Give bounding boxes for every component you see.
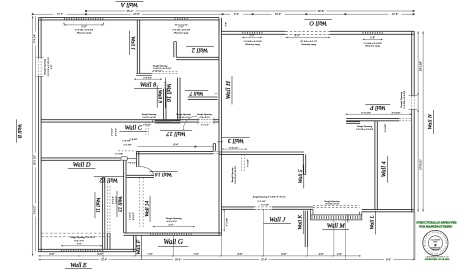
wall 17 horizontal xyxy=(136,151,213,153)
svg-text:2′-9 5/8″: 2′-9 5/8″ xyxy=(143,76,153,79)
svg-text:Wall H: Wall H xyxy=(225,80,232,99)
label Wall K (rotated) xyxy=(298,210,304,234)
svg-text:Wall O: Wall O xyxy=(309,20,327,27)
svg-text:Wall E: Wall E xyxy=(70,262,87,269)
svg-text:10′-1 1/2″: 10′-1 1/2″ xyxy=(34,154,37,165)
svg-text:Rough Opening: Rough Opening xyxy=(323,200,340,203)
wall 3 horizontal xyxy=(219,152,304,154)
wall 5 stub vertical xyxy=(303,154,305,174)
svg-text:2′-2″: 2′-2″ xyxy=(249,35,255,38)
top window P1 xyxy=(241,32,244,34)
wall 8 dim xyxy=(134,78,162,80)
svg-text:5′-5 1/2″: 5′-5 1/2″ xyxy=(113,196,115,204)
svg-text:Wall 13: Wall 13 xyxy=(117,196,123,212)
wall I vertical xyxy=(137,20,139,73)
closet stub near wall H xyxy=(213,144,215,152)
svg-text:Rough Opening: Rough Opening xyxy=(152,65,168,67)
label Wall I (rotated) xyxy=(129,31,135,55)
left dim column inner xyxy=(34,16,36,251)
wall K vertical xyxy=(305,211,307,247)
label Wall 5 (rotated) xyxy=(298,165,304,189)
svg-text:2′-6 7/8 x 6′-10 1/2: 2′-6 7/8 x 6′-10 1/2 xyxy=(235,165,237,183)
wall P rough opening dashes xyxy=(399,117,410,119)
second opening dimension xyxy=(175,24,188,26)
wall 3 dim xyxy=(222,148,247,150)
svg-text:2′-2 7/8″: 2′-2 7/8″ xyxy=(123,144,132,147)
svg-text:2′-8 1/2″: 2′-8 1/2″ xyxy=(112,128,114,136)
closet dashed header xyxy=(152,71,178,73)
label Wall 14 (rotated) xyxy=(143,196,150,222)
right dim column inner xyxy=(417,31,419,212)
svg-text:Wall C: Wall C xyxy=(125,125,143,132)
right wall opening xyxy=(411,96,415,109)
P1 dimension xyxy=(242,36,262,38)
label Wall 13 (rotated) xyxy=(117,191,123,217)
wall 17 dim xyxy=(137,146,213,148)
label Wall F (rotated) xyxy=(136,235,142,259)
right dim texts xyxy=(419,59,423,74)
svg-text:Masonry opng: Masonry opng xyxy=(76,31,92,34)
wall jog at top center xyxy=(218,20,220,31)
svg-text:WAY: WAY xyxy=(433,240,438,243)
svg-text:2′-6 1/2″: 2′-6 1/2″ xyxy=(34,205,37,215)
wall C dotted opening xyxy=(151,120,154,122)
label Wall 4 (rotated) xyxy=(381,156,388,183)
svg-text:Wall L: Wall L xyxy=(370,215,376,229)
wall F exterior jog xyxy=(134,235,136,251)
wall 3 door dashes xyxy=(240,154,242,171)
closet wall above wall 2 xyxy=(174,42,177,58)
svg-text:Rough Opening 5′-0 x 6′-8: Rough Opening 5′-0 x 6′-8 xyxy=(69,237,95,239)
closet wall 16 vertical xyxy=(178,78,180,121)
P2 dimension xyxy=(286,36,330,38)
label Wall B (rotated flipped) xyxy=(16,119,22,142)
left wall (Wall B) xyxy=(39,18,42,252)
svg-text:7′-4 7/8″: 7′-4 7/8″ xyxy=(246,159,249,167)
wall C right opening ticks xyxy=(199,119,214,123)
door opening dashes below wall 14 xyxy=(139,178,141,227)
svg-text:13′-0″: 13′-0″ xyxy=(101,258,108,261)
wall C door dashes xyxy=(145,122,147,135)
label Wall 2 (flipped) xyxy=(186,46,214,53)
svg-text:8′-4″: 8′-4″ xyxy=(173,144,179,147)
svg-text:5′-5 1/2″: 5′-5 1/2″ xyxy=(116,128,118,136)
svg-text:+5′-3″: +5′-3″ xyxy=(217,141,224,144)
svg-text:3′-0″: 3′-0″ xyxy=(50,63,53,69)
svg-text:22′-0″: 22′-0″ xyxy=(392,13,399,16)
wall C arc xyxy=(183,116,197,130)
svg-text:Wall 12: Wall 12 xyxy=(100,176,118,182)
svg-text:1′-4 1/2″: 1′-4 1/2″ xyxy=(129,212,132,220)
svg-text:FOR MANUFACTURING: FOR MANUFACTURING xyxy=(419,224,453,228)
top-left window opening xyxy=(63,18,66,20)
left dim texts xyxy=(33,32,37,46)
wall 16 lower vertical xyxy=(136,151,138,167)
bottom wall opening xyxy=(60,250,63,252)
svg-text:2′-0 1/2 x 6′-10: 2′-0 1/2 x 6′-10 xyxy=(142,117,156,119)
svg-text:7′-4 1/2″: 7′-4 1/2″ xyxy=(128,161,137,164)
top dim row B xyxy=(33,13,414,15)
dim extension lines bottom xyxy=(135,252,137,256)
svg-text:Wall M: Wall M xyxy=(327,222,346,229)
opening arrows top-left xyxy=(63,22,104,24)
svg-text:4′-0 1/2 x 5′-0: 4′-0 1/2 x 5′-0 xyxy=(177,116,190,119)
top-left exterior wall (Wall A) xyxy=(39,18,219,20)
svg-text:3′-0 5/8 x 4′-0 5/8: 3′-0 5/8 x 4′-0 5/8 xyxy=(403,90,406,109)
label Wall L (rotated) xyxy=(370,211,376,235)
svg-text:2′-0 3/8 x 6′-0 3/8: 2′-0 3/8 x 6′-0 3/8 xyxy=(356,128,374,131)
svg-text:TURNER: TURNER xyxy=(432,250,440,252)
right dim column outer xyxy=(422,31,424,212)
svg-text:Wall N: Wall N xyxy=(428,114,434,129)
svg-text:6′-0 5/8 x 6′-10: 6′-0 5/8 x 6′-10 xyxy=(325,204,339,206)
svg-text:2′-10 1/2″: 2′-10 1/2″ xyxy=(153,71,162,73)
wall 2 horizontal xyxy=(176,57,219,59)
svg-text:5′-3 3/8″: 5′-3 3/8″ xyxy=(225,217,228,226)
label Wall H (rotated) xyxy=(225,76,232,104)
svg-text:15′-8″: 15′-8″ xyxy=(133,13,140,16)
svg-text:Wall 9: Wall 9 xyxy=(157,90,163,104)
svg-text:Wall 14: Wall 14 xyxy=(143,200,150,216)
wall P horizontal xyxy=(346,118,399,120)
svg-text:4′-0 x 5′-0: 4′-0 x 5′-0 xyxy=(166,220,177,223)
wall 17 dashed extension xyxy=(213,150,219,152)
label Wall 11 (rotated) xyxy=(95,192,101,218)
svg-text:Wall I: Wall I xyxy=(129,36,135,50)
wall D door leaf xyxy=(121,157,127,160)
svg-text:Wall 7: Wall 7 xyxy=(189,90,203,96)
door swing arc xyxy=(139,167,153,176)
wall 12 vertical xyxy=(102,177,104,249)
bottom exterior wall (Wall E) xyxy=(39,249,136,251)
label Wall 17 (flipped) xyxy=(160,130,192,137)
closet wall 9 vertical xyxy=(164,89,166,121)
svg-text:Wall 17: Wall 17 xyxy=(165,130,185,137)
svg-text:Wall 3: Wall 3 xyxy=(228,137,244,144)
bottom-right exterior wall xyxy=(362,209,414,211)
label Wall G xyxy=(158,238,188,246)
svg-text:Wall P: Wall P xyxy=(370,104,386,110)
svg-text:30′-8″: 30′-8″ xyxy=(318,10,326,13)
wall D horizontal xyxy=(41,158,121,160)
wall 12 door dashes xyxy=(106,186,108,232)
wall H dim ticks xyxy=(215,93,218,95)
svg-text:2′-1 1/2″: 2′-1 1/2″ xyxy=(201,123,210,126)
wall 4 vertical xyxy=(375,121,377,210)
top door P2 dashes xyxy=(286,30,330,35)
left dim column outer xyxy=(32,16,34,256)
svg-text:Wall G: Wall G xyxy=(164,238,183,246)
label Wall 8 xyxy=(134,81,162,88)
svg-text:3′-10 1/2″: 3′-10 1/2″ xyxy=(229,146,240,149)
wall 12 top cap xyxy=(102,176,104,178)
second top-left window opening xyxy=(174,18,177,20)
wall G exterior xyxy=(124,233,222,235)
label Wall 9 (rotated) xyxy=(157,85,163,107)
svg-text:19′-0″: 19′-0″ xyxy=(175,258,182,261)
svg-text:2′-2 1/4″: 2′-2 1/4″ xyxy=(257,200,266,203)
wall J door opening dashes xyxy=(254,207,272,210)
svg-text:APPROVED: 02-18-2025: APPROVED: 02-18-2025 xyxy=(424,258,450,261)
svg-text:2′-2 3/8″: 2′-2 3/8″ xyxy=(115,152,124,155)
svg-text:7′-4 3/8″: 7′-4 3/8″ xyxy=(129,138,138,141)
svg-text:Wall 4: Wall 4 xyxy=(381,161,388,177)
label Wall C xyxy=(119,125,147,132)
wall 12 lower segment xyxy=(107,233,110,249)
svg-text:Wall 14: Wall 14 xyxy=(155,171,172,177)
top window P3 xyxy=(362,32,365,34)
wall H interior long vertical xyxy=(219,18,221,236)
wall C horizontal xyxy=(41,120,219,122)
wall G opening dim xyxy=(153,226,195,228)
svg-text:2′-0 1/2″: 2′-0 1/2″ xyxy=(143,123,152,126)
svg-text:17′-0 1/2″: 17′-0 1/2″ xyxy=(419,158,422,169)
svg-text:Wall 5: Wall 5 xyxy=(298,169,304,183)
label Wall N (rotated) xyxy=(428,110,434,134)
svg-text:2′-8 x 6′-10: 2′-8 x 6′-10 xyxy=(200,117,211,119)
svg-text:Masonry opng: Masonry opng xyxy=(173,31,189,34)
svg-text:Wall F: Wall F xyxy=(136,239,142,254)
top dim row A xyxy=(86,10,414,12)
svg-text:Wall 16: Wall 16 xyxy=(165,84,171,102)
label Wall 3 (flipped) xyxy=(222,137,250,144)
left wall opening ticks xyxy=(38,58,42,76)
svg-text:Masonry opng: Masonry opng xyxy=(364,45,380,48)
top-left opening dimension xyxy=(64,24,104,26)
label Wall M xyxy=(322,222,349,229)
approval stamp seal xyxy=(423,230,448,255)
svg-text:5′-0″: 5′-0″ xyxy=(77,242,83,245)
wall 14 horizontal xyxy=(127,175,154,177)
svg-text:7′-4 1/4″: 7′-4 1/4″ xyxy=(34,33,37,43)
wall 7 horizontal xyxy=(188,97,218,99)
svg-text:4′-0″: 4′-0″ xyxy=(169,223,175,226)
label Wall A (flipped) xyxy=(115,1,143,8)
svg-text:Wall J: Wall J xyxy=(269,217,286,224)
wall J exterior bottom wing xyxy=(221,207,313,209)
svg-text:Wall A: Wall A xyxy=(121,1,138,8)
svg-text:6′-11 5/8″: 6′-11 5/8″ xyxy=(361,111,372,114)
svg-text:Wall 2: Wall 2 xyxy=(191,46,208,53)
svg-text:1′-4 1/2″: 1′-4 1/2″ xyxy=(347,214,350,222)
right exterior wall (Wall N) xyxy=(412,31,415,212)
svg-text:2′-10 1/2 x 6′-10 1/2: 2′-10 1/2 x 6′-10 1/2 xyxy=(153,68,172,70)
wall H side dim xyxy=(223,209,225,231)
label Wall J xyxy=(263,217,291,224)
svg-text:Wall 11: Wall 11 xyxy=(95,197,101,213)
svg-text:Masonry opng: Masonry opng xyxy=(244,43,260,46)
sliding door rough opening dashes xyxy=(313,204,359,206)
svg-text:5′-9 3/4″: 5′-9 3/4″ xyxy=(384,123,387,132)
wall D header xyxy=(127,158,136,160)
label Wall E xyxy=(65,262,92,269)
svg-text:17′-1″: 17′-1″ xyxy=(57,13,64,16)
svg-text:6′-8 1/2″: 6′-8 1/2″ xyxy=(133,212,135,220)
label Wall 7 (flipped) xyxy=(185,90,208,96)
label Wall 14 (flipped) xyxy=(149,171,177,177)
label Wall 16 (rotated) xyxy=(165,78,171,108)
svg-text:1′-2 7/8″: 1′-2 7/8″ xyxy=(261,204,270,207)
svg-text:Rough Opening: Rough Opening xyxy=(43,58,46,76)
svg-text:Rough Opening 3′-2 5/8 x 6′-10: Rough Opening 3′-2 5/8 x 6′-10 1/2 xyxy=(252,197,286,199)
label Wall P (flipped) xyxy=(365,104,390,110)
closet bottom bar xyxy=(155,121,180,123)
svg-text:Wall 8: Wall 8 xyxy=(140,81,157,88)
doorway dashed header xyxy=(118,150,136,152)
svg-text:4′-4 5/8″: 4′-4 5/8″ xyxy=(392,111,402,114)
svg-text:PRECISION BUILT HOMES • MANUFA: PRECISION BUILT HOMES • MANUFACTURED • xyxy=(0,0,447,255)
svg-text:Wall K: Wall K xyxy=(298,215,304,230)
P3 dimension xyxy=(363,38,383,40)
svg-text:Rough Opening: Rough Opening xyxy=(232,167,234,183)
svg-text:10′-0″: 10′-0″ xyxy=(275,13,282,16)
svg-text:13′-0″: 13′-0″ xyxy=(261,258,268,261)
svg-text:2′-6″: 2′-6″ xyxy=(370,37,376,40)
closet wall 9 dashes xyxy=(163,82,165,89)
top-right exterior wall (Wall O) xyxy=(221,31,414,34)
label Wall O (flipped) xyxy=(304,20,332,27)
label Wall 12 (flipped) xyxy=(94,176,124,182)
wall P dim row xyxy=(346,113,412,115)
header dashed lines above bottom wall xyxy=(41,232,109,234)
bottom dim row 2 xyxy=(39,259,415,261)
svg-text:Wall D: Wall D xyxy=(73,162,91,169)
svg-text:6′-8 x 5′-0: 6′-8 x 5′-0 xyxy=(74,240,84,242)
wall jog right of Wall J xyxy=(310,209,312,215)
wall jog left of Wall L xyxy=(358,212,360,215)
wall P left step xyxy=(346,122,360,124)
bottom opening dim xyxy=(61,245,103,247)
bottom dim row 1 xyxy=(39,255,361,257)
vertical wall below wall D door xyxy=(124,160,126,233)
label Wall D xyxy=(68,162,96,169)
wall M hatched sill xyxy=(311,215,362,220)
svg-text:2′-6″: 2′-6″ xyxy=(225,21,228,27)
svg-text:Wall B: Wall B xyxy=(16,124,22,139)
wall G opening xyxy=(149,233,152,235)
svg-text:Assembly opng: Assembly opng xyxy=(300,43,317,46)
svg-text:10′-2 5/8″: 10′-2 5/8″ xyxy=(419,60,422,71)
